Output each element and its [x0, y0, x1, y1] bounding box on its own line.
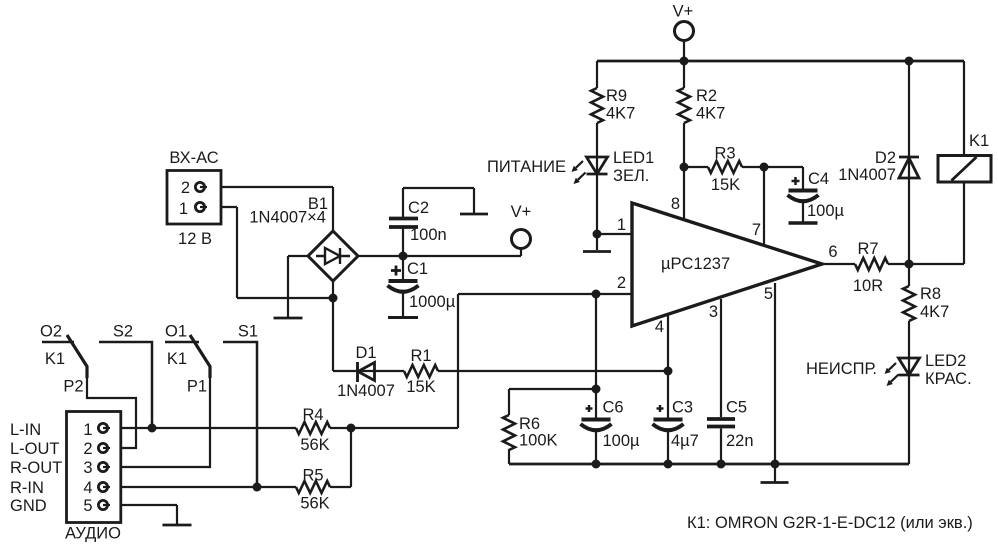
svg-text:R5: R5 — [302, 467, 323, 485]
svg-text:ВХ-АС: ВХ-АС — [169, 149, 218, 167]
svg-text:5: 5 — [764, 285, 773, 303]
svg-text:C3: C3 — [672, 399, 693, 417]
svg-text:1: 1 — [617, 216, 626, 234]
svg-text:6: 6 — [828, 243, 837, 261]
svg-text:56K: 56K — [300, 436, 329, 454]
svg-text:4: 4 — [83, 479, 92, 497]
svg-text:µPC1237: µPC1237 — [661, 255, 730, 273]
svg-text:L-OUT: L-OUT — [10, 440, 60, 458]
svg-text:1: 1 — [83, 421, 92, 439]
svg-text:10R: 10R — [853, 277, 883, 295]
svg-text:V+: V+ — [511, 203, 532, 221]
svg-text:4K7: 4K7 — [920, 303, 949, 321]
svg-text:4µ7: 4µ7 — [671, 432, 699, 450]
svg-text:P2: P2 — [63, 378, 83, 396]
svg-text:56K: 56K — [300, 495, 329, 513]
svg-text:15K: 15K — [711, 176, 740, 194]
svg-text:R7: R7 — [857, 240, 878, 258]
svg-text:ПИТАНИЕ: ПИТАНИЕ — [487, 158, 566, 176]
svg-text:R8: R8 — [920, 285, 941, 303]
svg-text:4K7: 4K7 — [606, 105, 635, 123]
svg-text:12 В: 12 В — [178, 230, 212, 248]
svg-text:R9: R9 — [606, 87, 627, 105]
svg-text:L-IN: L-IN — [10, 421, 41, 439]
svg-text:100n: 100n — [410, 226, 447, 244]
svg-text:4: 4 — [655, 318, 664, 336]
svg-text:1N4007: 1N4007 — [838, 166, 896, 184]
svg-text:D1: D1 — [355, 344, 376, 362]
svg-text:15K: 15K — [406, 378, 435, 396]
svg-text:К1: OMRON G2R-1-E-DC12 (или эк: К1: OMRON G2R-1-E-DC12 (или экв.) — [687, 514, 973, 532]
svg-text:8: 8 — [671, 195, 680, 213]
svg-text:GND: GND — [10, 497, 47, 515]
svg-text:КРАС.: КРАС. — [925, 370, 972, 388]
svg-text:R3: R3 — [714, 145, 735, 163]
svg-text:C1: C1 — [407, 260, 428, 278]
svg-text:D2: D2 — [875, 149, 896, 167]
svg-text:НЕИСПР.: НЕИСПР. — [806, 360, 877, 378]
svg-text:1000µ: 1000µ — [409, 293, 456, 311]
svg-text:АУДИО: АУДИО — [65, 525, 121, 543]
svg-text:7: 7 — [752, 221, 761, 239]
svg-text:R-OUT: R-OUT — [10, 459, 62, 477]
svg-text:4K7: 4K7 — [696, 105, 725, 123]
svg-text:LED1: LED1 — [613, 149, 654, 167]
svg-text:C4: C4 — [808, 170, 829, 188]
svg-text:S2: S2 — [113, 323, 133, 341]
svg-text:100µ: 100µ — [807, 202, 845, 220]
svg-text:R6: R6 — [519, 415, 540, 433]
svg-text:C6: C6 — [603, 399, 624, 417]
svg-text:V+: V+ — [673, 3, 694, 21]
svg-text:K1: K1 — [969, 132, 989, 150]
svg-text:O1: O1 — [165, 323, 187, 341]
svg-text:S1: S1 — [238, 323, 258, 341]
svg-text:1: 1 — [179, 200, 188, 218]
svg-text:5: 5 — [83, 497, 92, 515]
svg-text:K1: K1 — [45, 350, 65, 368]
svg-text:2: 2 — [617, 274, 626, 292]
svg-text:3: 3 — [83, 459, 92, 477]
svg-text:3: 3 — [709, 303, 718, 321]
svg-text:R-IN: R-IN — [10, 479, 44, 497]
svg-text:2: 2 — [181, 179, 190, 197]
svg-text:C5: C5 — [726, 399, 747, 417]
svg-text:R4: R4 — [302, 406, 323, 424]
svg-text:O2: O2 — [40, 323, 62, 341]
svg-text:R1: R1 — [410, 347, 431, 365]
svg-text:LED2: LED2 — [925, 352, 966, 370]
svg-text:ЗЕЛ.: ЗЕЛ. — [613, 167, 649, 185]
svg-text:100µ: 100µ — [603, 432, 641, 450]
svg-text:22n: 22n — [726, 432, 754, 450]
svg-text:1N4007×4: 1N4007×4 — [249, 209, 326, 227]
svg-text:100K: 100K — [519, 432, 558, 450]
svg-text:K1: K1 — [167, 350, 187, 368]
svg-text:P1: P1 — [187, 378, 207, 396]
svg-text:C2: C2 — [408, 199, 429, 217]
svg-text:1N4007: 1N4007 — [337, 382, 395, 400]
svg-text:R2: R2 — [696, 87, 717, 105]
svg-text:2: 2 — [83, 440, 92, 458]
